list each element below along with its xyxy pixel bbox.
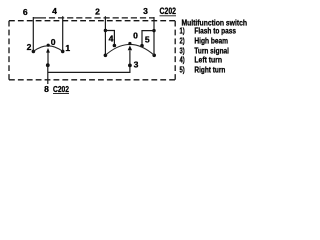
svg-text:4: 4 <box>109 33 114 43</box>
svg-text:5): 5) <box>180 64 185 74</box>
svg-text:Left turn: Left turn <box>194 54 222 64</box>
underline of C202 bottom <box>53 93 69 95</box>
svg-text:C202: C202 <box>160 6 177 16</box>
svg-text:3: 3 <box>143 6 148 16</box>
wire pin 2 <box>104 16 106 55</box>
svg-text:2: 2 <box>27 42 32 52</box>
svg-text:0: 0 <box>133 31 138 41</box>
contact dot position 0 left switch <box>47 44 50 47</box>
svg-text:1: 1 <box>65 43 70 53</box>
junction dot wire 2 <box>104 29 107 32</box>
contact dot position 0 right switch <box>128 42 131 45</box>
contact dot position 1 <box>61 50 65 54</box>
connector C202 dashed bracket line (continued) <box>49 17 154 19</box>
multifunction switch dashed outline box <box>9 21 175 80</box>
svg-text:Flash to pass: Flash to pass <box>194 25 236 35</box>
svg-text:4: 4 <box>52 6 57 16</box>
right switch arrowhead <box>128 46 132 51</box>
svg-text:C202: C202 <box>53 84 69 94</box>
arc right endpoint dot right switch <box>152 54 156 58</box>
svg-text:1): 1) <box>180 25 185 35</box>
wire pin 6 <box>32 17 34 51</box>
left switch arrowhead <box>46 48 50 53</box>
svg-text:6: 6 <box>23 7 28 17</box>
right switch arm arrow shaft <box>129 50 131 65</box>
svg-text:5: 5 <box>145 34 150 44</box>
left switch arc <box>33 46 62 52</box>
branch wire to contact 5 <box>142 31 154 45</box>
svg-text:High beam: High beam <box>194 36 228 46</box>
svg-text:2): 2) <box>180 36 185 46</box>
arc left endpoint dot right switch <box>104 54 108 58</box>
contact dot position 4 <box>113 44 117 48</box>
svg-text:4): 4) <box>180 54 185 64</box>
wire pin 3 <box>153 17 155 55</box>
pivot junction dot right switch <box>128 64 132 68</box>
wire pin 4 <box>62 16 64 50</box>
wire pivot to pin 8 <box>47 65 49 84</box>
svg-text:0: 0 <box>51 37 56 47</box>
svg-text:3: 3 <box>134 60 139 70</box>
branch wire to contact 4 <box>105 31 114 45</box>
right switch arc <box>105 44 154 55</box>
svg-text:8: 8 <box>44 84 49 94</box>
svg-text:2: 2 <box>95 7 100 17</box>
left switch arm arrow shaft <box>47 52 49 65</box>
contact dot position 5 <box>140 44 144 48</box>
connector C202 dashed bracket line <box>33 17 46 19</box>
junction dot wire 3 <box>152 29 155 32</box>
pivot junction dot left switch <box>46 63 50 67</box>
contact dot position 2 <box>32 50 36 54</box>
underline of C202 top <box>160 15 177 17</box>
svg-text:Right turn: Right turn <box>194 64 225 74</box>
wire connecting both switch pivots <box>48 65 130 72</box>
